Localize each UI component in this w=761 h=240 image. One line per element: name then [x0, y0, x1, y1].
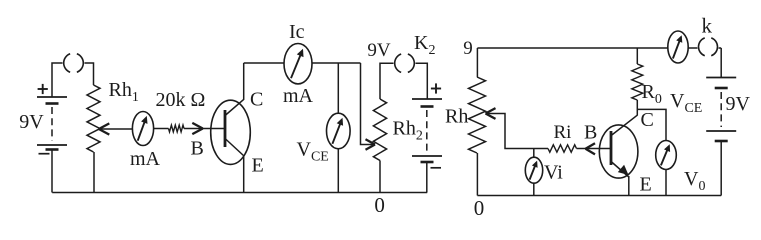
svg-text:Vi: Vi [544, 162, 563, 184]
svg-text:mA: mA [130, 148, 161, 170]
meter mA base (ammeter) [132, 112, 153, 146]
svg-text:Ri: Ri [554, 122, 572, 143]
label Vi [544, 162, 563, 184]
wire R0 top stub [636, 48, 638, 64]
resistor Ri [548, 145, 577, 152]
wire bottom rail right circuit [477, 195, 721, 197]
svg-text:9V: 9V [19, 111, 44, 133]
wire Vi meter top stub [533, 149, 535, 158]
meter VCE voltmeter left circuit [327, 113, 351, 149]
battery right dashed middle [426, 110, 428, 152]
wire Rh2 bottom to rail [379, 161, 381, 193]
label + left battery [38, 84, 48, 94]
wire left battery top to key K1 [52, 63, 64, 97]
label 9V near key K2 [367, 40, 391, 61]
arrow into Rh1 wiper [99, 123, 110, 134]
svg-text:mA: mA [283, 85, 314, 107]
wire Rh1 bottom to rail [93, 152, 95, 193]
label Rh2 [393, 118, 423, 144]
wire battery right stem top [720, 48, 722, 78]
potentiometer Rh1 [87, 85, 100, 152]
arrow into Rh2 wiper [366, 139, 376, 149]
svg-text:20k Ω: 20k Ω [156, 89, 206, 111]
svg-text:9: 9 [463, 38, 473, 59]
svg-text:Rh: Rh [445, 106, 468, 128]
meter Vi voltmeter [525, 157, 542, 183]
wire key K1 to Rh1 top [83, 63, 94, 85]
wire Rh1 wiper to meter mA [99, 128, 133, 130]
label Ic [289, 21, 305, 43]
arrow on base wire toward Q1 [192, 123, 203, 134]
wire emitter Q2 to bottom rail [628, 176, 630, 196]
wire collector junction to voltmeter [637, 109, 666, 141]
meter Ic mA (collector ammeter) [284, 44, 312, 84]
battery 9V right of left circuit cells [412, 99, 442, 162]
wire voltmeter V0 bottom stub [665, 170, 667, 196]
svg-text:k: k [702, 14, 713, 38]
resistor R0 [632, 64, 643, 100]
key K1 (plug key) [63, 52, 85, 74]
label + right battery [431, 83, 441, 93]
svg-text:E: E [640, 174, 652, 196]
battery 9V left cells [37, 97, 67, 150]
svg-text:Ic: Ic [289, 21, 305, 43]
resistor 20k ohm [169, 125, 185, 132]
label - right battery [431, 167, 442, 169]
wire Vi meter bottom stub [533, 183, 535, 196]
label K2 [414, 32, 435, 58]
label C collector Q1 [250, 89, 263, 111]
wire resistor 20k to transistor base [184, 128, 225, 130]
wire emitter Q1 to bottom rail [243, 156, 245, 193]
wire key K2 to right battery [414, 63, 427, 99]
label VCE left circuit [297, 139, 329, 165]
meter ammeter top right [668, 31, 688, 63]
svg-text:0: 0 [374, 193, 385, 217]
label 9V right battery [726, 93, 751, 115]
wire Ri to transistor base [577, 148, 611, 150]
wire meter mA to resistor 20k [154, 128, 169, 130]
key k (plug key right circuit) [697, 36, 718, 57]
wire Rh bottom to rail [476, 153, 478, 196]
label 0 node left circuit [374, 193, 385, 217]
wire R0 bottom to collector junction [636, 100, 638, 116]
battery 9V right circuit cells [706, 78, 736, 142]
wire left battery bottom to rail [51, 150, 53, 193]
wire Rh wiper path to Vi/Ri [486, 114, 549, 149]
wire top rail right circuit [477, 47, 721, 49]
wire junction down to VCE meter [337, 63, 339, 114]
transistor Q2 (circle, base bar, C and E legs, emitter arrow) [599, 115, 638, 178]
label mA under first meter [130, 148, 161, 170]
label 0 node right circuit [474, 196, 485, 220]
svg-text:9V: 9V [726, 93, 751, 115]
svg-text:B: B [584, 122, 597, 144]
label R0 [642, 81, 662, 107]
svg-text:C: C [250, 89, 263, 111]
wire top rail collector to Ic meter [244, 62, 285, 64]
svg-text:0: 0 [474, 196, 485, 220]
label C collector Q2 [641, 109, 654, 131]
wire rail end down to Rh2 wiper [361, 63, 375, 145]
wire Rh2 top to key K2 [380, 63, 395, 99]
arrow into Rh wiper [486, 108, 496, 119]
wire collector Q1 to top rail [243, 63, 245, 100]
potentiometer Rh2 [373, 99, 386, 161]
label B base Q1 [191, 138, 204, 160]
label - left battery [39, 153, 50, 155]
label VCE right circuit [670, 90, 702, 116]
wire battery right stem bottom [720, 141, 722, 196]
battery right circuit dashed middle [720, 92, 722, 127]
svg-text:9V: 9V [367, 40, 391, 61]
key K2 (plug key) [394, 52, 416, 74]
label Rh1 [109, 79, 139, 105]
arrow on base wire toward Ri [586, 143, 596, 154]
potentiometer Rh right circuit [469, 77, 486, 153]
label 20k ohm [156, 89, 206, 111]
transistor Q1 (circle, base bar, C and E legs) [211, 99, 251, 164]
label B base Q2 [584, 122, 597, 144]
label k key [702, 14, 713, 38]
label 9V left battery [19, 111, 44, 133]
label mA under Ic meter [283, 85, 314, 107]
svg-text:C: C [641, 109, 654, 131]
wire VCE meter to bottom rail [337, 148, 339, 193]
wire bottom rail left circuit [52, 192, 427, 194]
label E emitter Q2 [640, 174, 652, 196]
label V0 output [684, 168, 705, 194]
wire Ic meter to rail end [312, 62, 361, 64]
svg-text:B: B [191, 138, 204, 160]
svg-text:E: E [252, 155, 264, 177]
label 9 top left [463, 38, 473, 59]
label Ri [554, 122, 572, 143]
label Rh [445, 106, 468, 128]
wire right battery bottom to rail [426, 162, 428, 193]
label E emitter Q1 [252, 155, 264, 177]
battery 9V left dashed middle [51, 107, 53, 141]
wire top rail down to Rh [476, 48, 478, 77]
meter V0 voltmeter [656, 141, 677, 170]
